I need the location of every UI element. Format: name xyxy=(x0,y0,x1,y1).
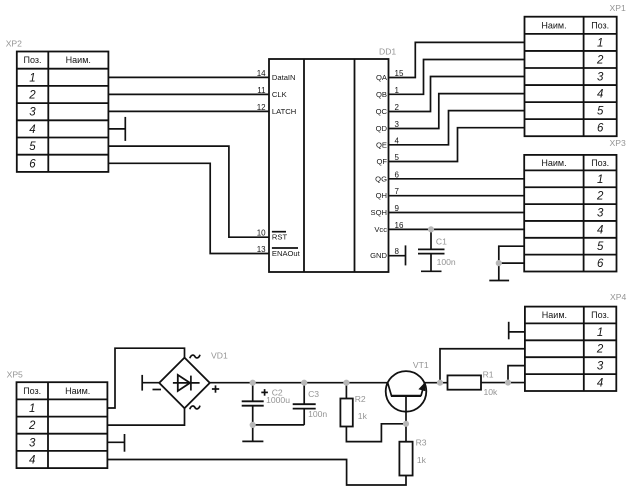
junction R1 right node xyxy=(505,379,511,385)
svg-text:Поз.: Поз. xyxy=(591,21,609,31)
svg-text:SQH: SQH xyxy=(371,208,387,217)
svg-text:LATCH: LATCH xyxy=(272,107,296,116)
svg-text:Наим.: Наим. xyxy=(541,21,566,31)
svg-text:4: 4 xyxy=(597,224,603,236)
plus sign (bridge) xyxy=(212,385,219,392)
wire R1 to XP4.4 xyxy=(481,382,525,384)
ground chassis XP2.4 xyxy=(108,117,125,141)
AC tilde top xyxy=(190,355,200,359)
wire Vcc to XP3.4 xyxy=(389,228,525,230)
svg-text:4: 4 xyxy=(597,89,603,101)
IC DD1 left pin numbers xyxy=(257,69,266,254)
svg-text:QE: QE xyxy=(376,140,387,149)
svg-text:VD1: VD1 xyxy=(211,351,228,361)
junction C2 bottom node xyxy=(250,422,256,428)
svg-text:VT1: VT1 xyxy=(413,360,429,370)
connector XP2 xyxy=(17,52,109,172)
svg-text:2: 2 xyxy=(596,344,604,356)
resistor R3 xyxy=(399,424,412,476)
svg-text:1: 1 xyxy=(597,327,603,339)
connector XP5 xyxy=(17,382,108,468)
svg-text:1: 1 xyxy=(597,37,603,49)
svg-text:QG: QG xyxy=(375,174,387,183)
resistor R2 xyxy=(340,383,352,427)
svg-text:QC: QC xyxy=(376,107,388,116)
svg-text:4: 4 xyxy=(29,124,35,136)
svg-text:1000u: 1000u xyxy=(266,395,290,405)
svg-text:1k: 1k xyxy=(358,411,368,421)
connector XP1 xyxy=(525,17,617,137)
svg-text:5: 5 xyxy=(597,241,604,253)
junction XP3 ground node xyxy=(496,260,502,266)
wire XP2.3 to LATCH xyxy=(108,110,269,112)
svg-text:2: 2 xyxy=(28,90,36,102)
svg-text:10k: 10k xyxy=(484,387,499,397)
svg-text:Наим.: Наим. xyxy=(66,55,91,65)
minus sign (bridge) xyxy=(153,389,162,391)
svg-text:4: 4 xyxy=(597,378,603,390)
svg-text:Поз.: Поз. xyxy=(591,310,609,320)
wire QG to XP3.1 xyxy=(389,178,525,180)
svg-text:QA: QA xyxy=(376,73,388,82)
svg-text:QD: QD xyxy=(376,124,388,133)
svg-text:RST: RST xyxy=(272,233,288,242)
capacitor C2 xyxy=(242,383,264,425)
svg-text:Наим.: Наим. xyxy=(542,310,567,320)
junction base node xyxy=(403,421,409,427)
svg-text:1: 1 xyxy=(29,72,35,84)
wire node to XP4.3 xyxy=(508,366,525,383)
svg-text:R2: R2 xyxy=(355,394,366,404)
svg-text:XP3: XP3 xyxy=(610,138,626,148)
wire QF to XP1.6 xyxy=(389,128,525,162)
transistor VT1 xyxy=(386,371,427,424)
wire XP5.2 to bridge AC bottom xyxy=(107,408,184,425)
wire XP2.2 to CLK xyxy=(108,93,269,95)
svg-text:Наим.: Наим. xyxy=(65,386,90,396)
wire QH to XP3.2 xyxy=(389,195,525,197)
IC DD1 left pin labels xyxy=(272,73,301,258)
junction C3 top node xyxy=(301,380,307,386)
svg-text:Наим.: Наим. xyxy=(541,158,566,168)
svg-text:5: 5 xyxy=(597,106,604,118)
ground bar under C1 xyxy=(421,270,442,272)
svg-text:XP4: XP4 xyxy=(610,292,626,302)
IC DD1 body xyxy=(269,59,389,272)
svg-text:1: 1 xyxy=(597,174,603,186)
svg-text:ENAOut: ENAOut xyxy=(272,249,301,258)
wire XP3.5 to ground xyxy=(499,246,524,263)
svg-text:6: 6 xyxy=(29,158,36,170)
svg-text:QB: QB xyxy=(376,90,387,99)
wire XP5.1 to bridge AC top xyxy=(107,348,184,408)
svg-text:1: 1 xyxy=(29,403,35,415)
svg-text:1k: 1k xyxy=(417,455,427,465)
svg-text:R3: R3 xyxy=(416,437,427,447)
svg-text:R1: R1 xyxy=(483,370,494,380)
svg-text:Поз.: Поз. xyxy=(23,386,41,396)
IC DD1 right pin numbers xyxy=(395,69,404,256)
svg-text:2: 2 xyxy=(28,420,36,432)
wire emitter to R1 xyxy=(424,382,447,384)
svg-text:GND: GND xyxy=(370,251,387,260)
wire XP5.4 bottom rail to R3 xyxy=(107,460,406,486)
IC DD1 right pin labels xyxy=(370,73,388,260)
wire QD to XP1.4 xyxy=(389,94,525,129)
svg-text:100n: 100n xyxy=(308,409,327,419)
ground chassis at bridge minus xyxy=(142,375,159,391)
capacitor C3 xyxy=(293,383,316,425)
svg-text:3: 3 xyxy=(597,361,604,373)
junction R2 top node xyxy=(343,380,349,386)
wire node to XP4.2 xyxy=(440,349,525,383)
connector XP3 xyxy=(524,155,616,272)
junction Vcc/C1 node xyxy=(428,226,434,232)
svg-text:DataIN: DataIN xyxy=(272,73,296,82)
svg-text:XP5: XP5 xyxy=(7,370,23,380)
svg-text:100n: 100n xyxy=(437,257,456,267)
svg-text:DD1: DD1 xyxy=(379,47,396,57)
svg-text:2: 2 xyxy=(596,191,604,203)
svg-text:Vcc: Vcc xyxy=(374,225,387,234)
wire XP2.5 to RST xyxy=(108,146,269,237)
ground chassis XP5.3 xyxy=(107,434,124,452)
svg-text:4: 4 xyxy=(29,455,35,467)
ground bar XP3 xyxy=(489,263,509,280)
svg-text:6: 6 xyxy=(597,123,604,135)
svg-text:3: 3 xyxy=(29,107,36,119)
plus sign (C2 polarity) xyxy=(261,389,268,396)
wire XP3.6 to ground xyxy=(499,262,524,264)
junction C2 top node xyxy=(250,380,256,386)
svg-text:C3: C3 xyxy=(308,389,319,399)
svg-text:Поз.: Поз. xyxy=(591,158,609,168)
svg-text:3: 3 xyxy=(597,72,604,84)
wire C2 bottom to C3 bottom xyxy=(253,424,305,426)
svg-text:2: 2 xyxy=(596,55,604,67)
wire + rail from bridge to VT1 xyxy=(210,382,388,384)
svg-text:Поз.: Поз. xyxy=(24,55,42,65)
ground chassis at GND pin 8 xyxy=(389,245,406,265)
junction collector node xyxy=(437,380,443,386)
wire SQH to XP3.3 xyxy=(389,212,525,214)
ground bar under C2 xyxy=(242,425,263,442)
svg-text:5: 5 xyxy=(29,141,36,153)
svg-text:QH: QH xyxy=(376,191,387,200)
connector XP4 xyxy=(525,307,616,391)
wire QA to XP1.1 xyxy=(389,42,525,77)
wire QB to XP1.2 xyxy=(389,60,525,95)
svg-text:3: 3 xyxy=(29,437,36,449)
svg-text:XP2: XP2 xyxy=(6,38,22,48)
svg-text:6: 6 xyxy=(597,258,604,270)
ground chassis XP4.1 xyxy=(509,322,525,340)
svg-text:C1: C1 xyxy=(436,237,447,247)
svg-text:XP1: XP1 xyxy=(610,3,626,13)
resistor R1 xyxy=(448,375,482,389)
capacitor C1 xyxy=(418,229,445,270)
wire XP2.6 to ENAOut xyxy=(108,163,269,253)
svg-text:3: 3 xyxy=(597,208,604,220)
wire QC to XP1.3 xyxy=(389,77,525,112)
wire QE to XP1.5 xyxy=(389,111,525,145)
svg-text:QF: QF xyxy=(376,157,387,166)
wire R2 bottom to base node xyxy=(346,424,406,442)
svg-text:CLK: CLK xyxy=(272,90,287,99)
wire XP2.1 to DataIN xyxy=(108,76,269,78)
AC tilde bottom xyxy=(190,406,200,410)
bridge rectifier VD1 xyxy=(159,358,210,409)
